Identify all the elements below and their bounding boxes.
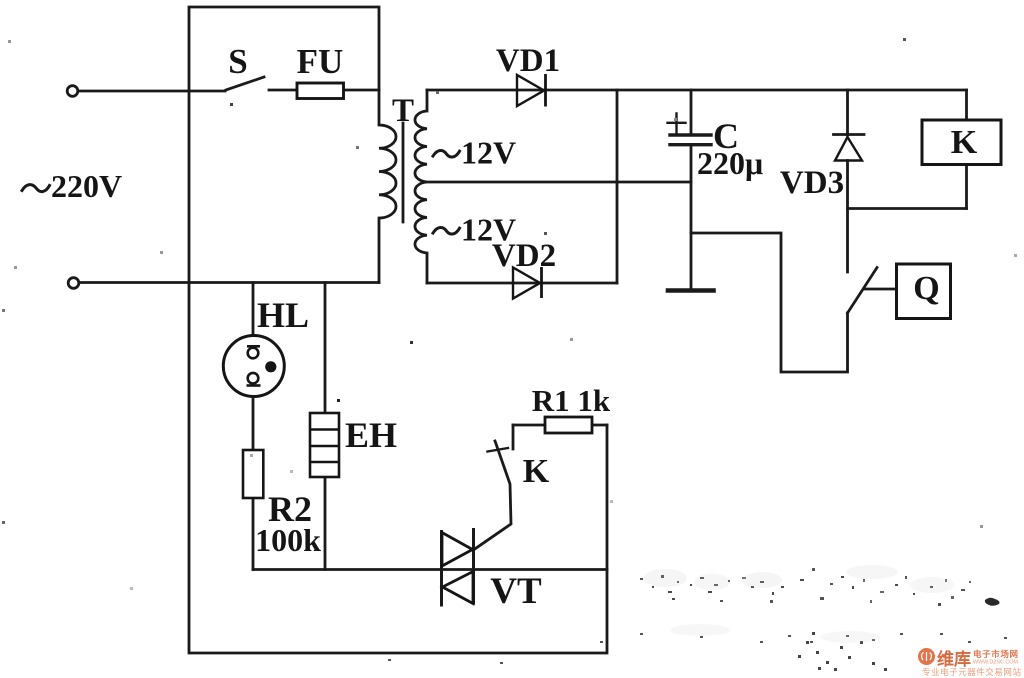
svg-text:K: K xyxy=(951,124,978,161)
svg-text:电子市场网: 电子市场网 xyxy=(973,649,1018,659)
svg-text:EH: EH xyxy=(345,415,397,455)
svg-text:维库: 维库 xyxy=(937,649,971,669)
svg-text:VD3: VD3 xyxy=(780,165,844,201)
svg-text:100k: 100k xyxy=(255,522,321,558)
svg-text:WWW.DZSC.COM: WWW.DZSC.COM xyxy=(973,660,1018,666)
svg-text:FU: FU xyxy=(297,42,344,81)
svg-text:VD1: VD1 xyxy=(496,43,560,79)
svg-text:Q: Q xyxy=(913,270,939,307)
svg-text:220V: 220V xyxy=(51,168,122,204)
svg-text:VD2: VD2 xyxy=(492,238,556,274)
svg-text:HL: HL xyxy=(257,295,309,335)
svg-text:专业电子元器件交易网站: 专业电子元器件交易网站 xyxy=(922,667,1021,677)
svg-text:VT: VT xyxy=(490,571,542,612)
svg-text:12V: 12V xyxy=(461,135,516,171)
svg-text:220μ: 220μ xyxy=(697,145,763,181)
svg-text:S: S xyxy=(228,42,247,81)
svg-text:K: K xyxy=(523,453,550,490)
svg-text:R1 1k: R1 1k xyxy=(532,383,611,418)
svg-text:T: T xyxy=(392,93,414,129)
